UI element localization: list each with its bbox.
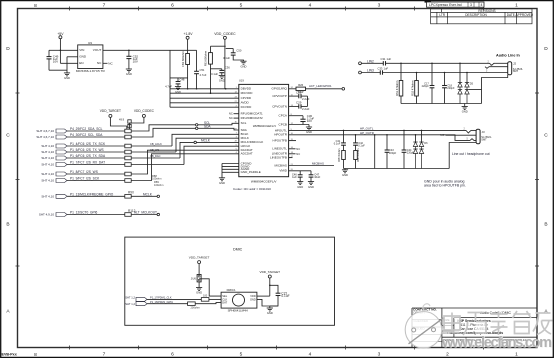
zone tick marks top (70, 7, 484, 11)
svg-text:VIN: VIN (79, 48, 84, 52)
svg-text:VDD_TARGET: VDD_TARGET (260, 270, 281, 274)
svg-text:B: B (544, 222, 547, 228)
svg-text:EN: EN (79, 61, 83, 65)
svg-text:P1_13/MCLK/FREQME_GPIO: P1_13/MCLK/FREQME_GPIO (70, 192, 114, 196)
ESD diode D5 (458, 63, 474, 104)
svg-text:10uF: 10uF (314, 175, 320, 179)
capacitor C28 (289, 90, 310, 100)
power flag VDD_CODEC (214, 32, 236, 89)
svg-text:49.9: 49.9 (119, 118, 125, 122)
capacitor C30 flying (289, 114, 315, 124)
svg-text:RFU/DMICDAT1: RFU/DMICDAT1 (241, 112, 263, 116)
capacitor C36 (211, 65, 231, 76)
ground (line out bus) (344, 169, 346, 170)
svg-text:HP_OUTR: HP_OUTR (360, 131, 374, 135)
svg-text:CPVOUTN: CPVOUTN (272, 104, 287, 108)
wire MICBIAS (289, 161, 334, 165)
svg-text:4: 4 (309, 3, 312, 9)
wire VOUT bus (103, 49, 197, 51)
svg-text:8: 8 (34, 352, 37, 358)
svg-text:7: 7 (103, 3, 106, 9)
svg-text:DMIC: DMIC (233, 247, 243, 251)
zone letters left (6, 46, 10, 315)
svg-text:1: 1 (515, 352, 518, 358)
capacitor C29 (289, 101, 310, 111)
svg-text:2.2uF: 2.2uF (302, 97, 310, 101)
svg-text:D6: D6 (424, 141, 428, 145)
svg-text:P1_5/FC6_I2S_TX_WS: P1_5/FC6_I2S_TX_WS (70, 148, 104, 152)
svg-text:4.7uF: 4.7uF (165, 84, 172, 88)
svg-text:P4_29/FC2_SDA_SCL: P4_29/FC2_SDA_SCL (70, 127, 103, 131)
capacitor C51 (194, 50, 207, 89)
svg-text:200ohm: 200ohm (191, 305, 200, 309)
svg-text:C: C (544, 133, 548, 139)
svg-text:2.2uF: 2.2uF (302, 107, 310, 111)
ground (mic) (267, 308, 273, 315)
wire gnd bus (line in) (401, 75, 508, 107)
svg-text:D: D (544, 46, 548, 52)
watermark www.elecfans.com (441, 335, 553, 352)
wire VMID (289, 171, 311, 175)
svg-text:C33: C33 (378, 66, 383, 70)
flag DMIC clock (125, 295, 201, 301)
svg-text:SHT 1,2: SHT 1,2 (125, 302, 135, 306)
svg-text:WM8904CGEFL/V: WM8904CGEFL/V (253, 124, 276, 128)
svg-text:www.elecfans.com: www.elecfans.com (441, 335, 552, 351)
ferrite bead FB3 (204, 46, 226, 93)
svg-text:SHT 4,10: SHT 4,10 (41, 172, 54, 176)
svg-text:HPOUTL: HPOUTL (275, 128, 288, 132)
svg-text:4.7uF: 4.7uF (200, 73, 207, 77)
row 8 (41, 154, 238, 187)
wire HPOUTL (289, 126, 466, 130)
power flag +5V (57, 32, 64, 39)
revision table (431, 9, 532, 24)
svg-text:1uF: 1uF (384, 66, 389, 70)
zone tick marks bottom (70, 346, 484, 350)
svg-text:area tied to HPOUTFB pin.: area tied to HPOUTFB pin. (424, 184, 466, 188)
wire supply rails to codec (170, 89, 239, 107)
ground (JU6) (196, 288, 202, 295)
IC left NC marks on RFU pins (229, 112, 239, 120)
wire HPOUTR (289, 131, 470, 140)
svg-text:Audio Line In: Audio Line In (496, 53, 521, 57)
svg-text:D5: D5 (470, 82, 474, 86)
power flag VDD_TARGET (pull-ups) (100, 109, 127, 126)
capacitor C31 (381, 57, 392, 65)
svg-text:R26: R26 (298, 83, 303, 87)
svg-text:P1_8/FC7_I2S_WS: P1_8/FC7_I2S_WS (70, 170, 98, 174)
jack J3 headphone (440, 128, 491, 143)
svg-text:4: 4 (309, 352, 312, 358)
svg-text:WM8904CGEFL/V: WM8904CGEFL/V (251, 179, 278, 183)
jumper JU6 (191, 275, 201, 282)
svg-text:100ohm: 100ohm (154, 183, 163, 187)
jack J2 audio line in (485, 53, 523, 75)
svg-text:DAT: DAT (222, 301, 227, 305)
svg-text:2: 2 (446, 352, 449, 358)
svg-text:DBVDD: DBVDD (241, 87, 252, 91)
zone letters right (544, 46, 548, 315)
ground (C46) (297, 182, 303, 189)
regulator U9 (76, 41, 106, 73)
ground (C30) (308, 125, 310, 128)
svg-text:C50: C50 (236, 49, 241, 53)
svg-text:VDD_TARGET: VDD_TARGET (189, 256, 210, 260)
svg-text:C28: C28 (296, 90, 302, 94)
svg-text:VDD_TARGET: VDD_TARGET (100, 109, 121, 113)
svg-text:GPIO1/IRQ: GPIO1/IRQ (272, 87, 288, 91)
svg-text:SMT: SMT (513, 69, 519, 73)
svg-text:SHT 4,10: SHT 4,10 (41, 163, 54, 167)
svg-text:VOUT: VOUT (93, 48, 102, 52)
svg-text:FB2 600ohm: FB2 600ohm (181, 51, 185, 67)
capacitor C47 (309, 173, 321, 182)
svg-text:1uF: 1uF (387, 57, 392, 61)
svg-text:100ohm: 100ohm (152, 177, 161, 181)
svg-text:NC: NC (440, 133, 444, 137)
svg-text:ADCDAT: ADCDAT (241, 152, 253, 156)
op IC body (239, 79, 289, 184)
svg-text:0.1uF: 0.1uF (334, 142, 341, 146)
wire cap to gnd bus (49, 57, 67, 73)
svg-text:MCLK: MCLK (201, 139, 211, 143)
svg-text:CPVOUTP: CPVOUTP (272, 94, 287, 98)
capacitor C18 (442, 72, 455, 104)
svg-text:3: 3 (378, 352, 381, 358)
svg-text:CPCA: CPCA (279, 114, 287, 118)
wire to terminal (306, 88, 343, 90)
wire jumper to SEL (199, 279, 221, 296)
resistor R121 (188, 302, 222, 309)
svg-text:0.1uF: 0.1uF (281, 294, 289, 298)
row 10: ALT MCLKOUT (39, 209, 160, 217)
ESD diode D6 (413, 130, 428, 169)
svg-text:SHT 4,10: SHT 4,10 (41, 194, 54, 198)
svg-text:R51 47kohm: R51 47kohm (395, 80, 399, 96)
svg-text:P1_7/FC7_I2S_RX_DAT: P1_7/FC7_I2S_RX_DAT (70, 161, 105, 165)
ground (line in bus) (462, 107, 468, 114)
svg-text:GND: GND (250, 297, 256, 301)
wire LIN3 (361, 72, 380, 74)
svg-text:SHT 1,2: SHT 1,2 (125, 296, 135, 300)
svg-text:SPH0641LM4H: SPH0641LM4H (228, 309, 248, 313)
microphone DMIC1 (221, 288, 257, 312)
wire LIN2 (361, 62, 383, 64)
svg-text:8: 8 (34, 3, 37, 9)
wire gnd pour boundary (374, 134, 376, 169)
svg-text:NC: NC (97, 61, 102, 65)
svg-text:SCL: SCL (241, 121, 247, 125)
row 5: I2S TX SDA (41, 139, 238, 160)
svg-text:P4_30/FC2_SCL_SDA: P4_30/FC2_SCL_SDA (70, 133, 103, 137)
watermark chinese characters (444, 311, 553, 335)
wire to jack tip (386, 62, 490, 64)
wire GND pin (67, 56, 78, 58)
svg-text:SHT 4,6,7,10: SHT 4,6,7,10 (36, 129, 54, 133)
svg-text:HPOUTR: HPOUTR (274, 133, 288, 137)
svg-text:P1_16/PDM1_DATA: P1_16/PDM1_DATA (150, 300, 173, 304)
svg-text:Codec: I2C addr = 0011010: Codec: I2C addr = 0011010 (233, 187, 271, 191)
row 2: I2C SCL (36, 125, 238, 139)
svg-text:SHT 4,6,7,10: SHT 4,6,7,10 (36, 135, 54, 139)
svg-text:SHT 4,9,10: SHT 4,9,10 (39, 213, 54, 217)
row 7 (41, 150, 238, 180)
svg-text:P1_4/FC6_I2S_TX_SCK: P1_4/FC6_I2S_TX_SCK (70, 142, 106, 146)
capacitor C48 (165, 78, 187, 89)
svg-text:JU6: JU6 (191, 276, 197, 280)
capacitor C50 (223, 49, 243, 62)
svg-text:SHT 4,10: SHT 4,10 (41, 179, 54, 183)
node LIN terminals (359, 59, 374, 74)
capacitor C41 + resistor R45 branch (334, 130, 346, 169)
svg-text:C: C (6, 133, 10, 139)
svg-text:MIC5366-1.8YC5 TR: MIC5366-1.8YC5 TR (76, 69, 106, 73)
svg-text:B: B (6, 222, 9, 228)
svg-text:CPCB: CPCB (279, 122, 287, 126)
svg-text:P1_9/FC7_I2S_SCK: P1_9/FC7_I2S_SCK (70, 177, 100, 181)
svg-text:R45 390ohm: R45 390ohm (339, 148, 341, 161)
zone tick marks sides (16, 93, 540, 266)
svg-text:ALT_MCLKOUT: ALT_MCLKOUT (134, 211, 157, 215)
node junctions (60, 50, 227, 94)
svg-text:P1_12/SCT0_GPI6: P1_12/SCT0_GPI6 (70, 211, 98, 215)
svg-text:GND: GND (79, 55, 87, 59)
node ACT_LED/GPIO1 (309, 84, 345, 90)
svg-text:10V: 10V (53, 60, 58, 64)
svg-text:NC: NC (229, 116, 233, 120)
svg-text:220pF: 220pF (447, 86, 455, 90)
power flag VDD_TARGET (mic) (260, 270, 281, 296)
svg-text:7: 7 (103, 352, 106, 358)
svg-text:0.1uF: 0.1uF (358, 143, 365, 147)
wire gnd bus (line out) (344, 143, 477, 169)
ground (C50) (240, 61, 246, 68)
row 4: I2S TX WS (41, 138, 238, 154)
svg-text:RFU/DMICDAT2: RFU/DMICDAT2 (241, 116, 263, 120)
watermark logo circle (405, 304, 443, 348)
capacitor C33 (378, 66, 389, 74)
svg-text:NC: NC (296, 147, 300, 151)
svg-text:DATE: DATE (507, 13, 515, 17)
capacitor C42 + resistor R46 branch (353, 134, 365, 169)
svg-text:C31: C31 (381, 57, 386, 61)
svg-text:AVDD: AVDD (241, 101, 250, 105)
sheet reference box top right (425, 0, 485, 7)
svg-text:P1_6/FC6_I2S_TX_SDA: P1_6/FC6_I2S_TX_SDA (70, 154, 106, 158)
svg-text:HPOUTFB: HPOUTFB (273, 139, 287, 143)
svg-text:HP_OUTL: HP_OUTL (360, 126, 374, 130)
svg-text:4: 4 (481, 3, 483, 7)
svg-text:APPROVED: APPROVED (516, 13, 534, 17)
svg-text:MICVDD: MICVDD (241, 91, 254, 95)
svg-text:LINEOUTL: LINEOUTL (272, 147, 287, 151)
NC stub (103, 61, 114, 65)
wire HPOUTFB stub (289, 140, 296, 142)
row 3: I2S TX SCK (41, 134, 238, 148)
capacitor C17 (422, 63, 435, 104)
capacitor C46 (292, 173, 303, 182)
svg-text:FB3 600ohm: FB3 600ohm (204, 50, 208, 66)
ground (codec) (219, 178, 225, 185)
svg-text:CPVDD: CPVDD (241, 96, 252, 100)
svg-text:MICBIAS: MICBIAS (312, 161, 324, 165)
svg-text:220pF: 220pF (407, 151, 415, 155)
svg-text:ACT_LED/GPIO1: ACT_LED/GPIO1 (309, 84, 332, 88)
svg-text:DCVDD: DCVDD (241, 105, 253, 109)
svg-text:10V: 10V (133, 59, 138, 63)
svg-text:6: 6 (171, 3, 174, 9)
svg-text:EVB-Pxx: EVB-Pxx (2, 353, 17, 357)
svg-text:220pF: 220pF (422, 84, 430, 88)
flag DMIC data (125, 300, 187, 306)
capacitor C21 (269, 285, 290, 307)
wire to jack ring (383, 72, 508, 74)
svg-text:C51: C51 (200, 68, 205, 72)
svg-text:C48: C48 (180, 78, 185, 82)
resistor R26 (296, 83, 306, 94)
wire VDD pin (257, 295, 270, 297)
capacitor C49 (47, 55, 59, 71)
svg-text:SHT 4,10: SHT 4,10 (41, 150, 54, 154)
capacitor C44 (402, 130, 415, 169)
row 6: I2S RX SDA (41, 146, 238, 166)
svg-text:LIN3: LIN3 (367, 69, 374, 73)
IC right pin labels (270, 87, 288, 173)
ground (regulator) (64, 73, 70, 80)
svg-text:5: 5 (240, 3, 243, 9)
svg-text:SHT 4,10: SHT 4,10 (41, 156, 54, 160)
row 1: I2C SDA (36, 121, 238, 133)
wire GPIO1 (289, 88, 296, 90)
resistor R120 (201, 294, 221, 302)
svg-text:3: 3 (470, 3, 472, 7)
svg-text:DESCRIPTION: DESCRIPTION (465, 13, 487, 17)
ground (C47) (308, 182, 314, 189)
wire +1.8V feed vertical (169, 50, 171, 107)
svg-text:LIN2: LIN2 (367, 59, 374, 63)
wire EN pin (60, 62, 77, 64)
IC left pin labels (241, 87, 264, 175)
svg-text:3: 3 (378, 3, 381, 9)
svg-text:CB_ACLK: CB_ACLK (150, 142, 162, 146)
svg-text:MCLK: MCLK (143, 192, 153, 196)
wire to gnd (269, 306, 271, 308)
wire CP bus (307, 96, 309, 106)
ground (C52) (126, 69, 132, 76)
svg-text:P1_17/PDM1_CLK: P1_17/PDM1_CLK (150, 295, 172, 299)
svg-text:SHT 4,10: SHT 4,10 (41, 144, 54, 148)
svg-text:U19: U19 (239, 79, 244, 83)
svg-text:C36: C36 (225, 65, 230, 69)
title block (412, 308, 537, 348)
svg-text:J2: J2 (513, 62, 516, 66)
svg-text:SDA: SDA (204, 125, 211, 129)
svg-text:NC: NC (296, 152, 300, 156)
svg-text:R46 390ohm: R46 390ohm (358, 148, 360, 161)
svg-text:VMID: VMID (279, 169, 287, 173)
wire GND pin (257, 299, 278, 306)
svg-text:0.1uF: 0.1uF (223, 56, 230, 60)
wire +5V to VIN (49, 39, 78, 64)
capacitor C43 (385, 134, 397, 169)
DMIC box (125, 237, 335, 325)
svg-text:220pF: 220pF (389, 151, 397, 155)
svg-text:0.1uF: 0.1uF (211, 72, 218, 76)
svg-text:D: D (6, 46, 10, 52)
svg-text:Line out / headphone out: Line out / headphone out (452, 152, 490, 156)
svg-text:100: 100 (203, 294, 208, 298)
resistor R52 (411, 72, 419, 104)
svg-text:6: 6 (171, 352, 174, 358)
svg-text:R90: R90 (128, 191, 134, 195)
svg-text:LPCXpresso Ever.Ind: LPCXpresso Ever.Ind (429, 3, 462, 7)
wire jumper to gnd (198, 282, 200, 288)
svg-text:R52 47kohm: R52 47kohm (411, 80, 415, 96)
note gnd pour (424, 179, 466, 187)
ground (C48) (175, 87, 181, 94)
svg-text:VDD_CODEC: VDD_CODEC (214, 32, 236, 36)
ferrite bead FB2 (181, 51, 190, 89)
row 9: MCLK (41, 191, 159, 199)
svg-text:J3: J3 (482, 130, 485, 134)
svg-text:LINEOUTFB: LINEOUTFB (270, 156, 287, 160)
svg-text:U9: U9 (88, 41, 92, 45)
svg-text:GND_PADDLE: GND_PADDLE (241, 170, 261, 174)
svg-text:+5V: +5V (57, 32, 64, 36)
power flag VDD_CODEC (pull-ups) (119, 109, 155, 129)
svg-text:10V: 10V (307, 119, 312, 123)
svg-text:C29: C29 (296, 101, 302, 105)
wire codec ground pins (222, 164, 239, 178)
power flag +1.8V (184, 32, 194, 53)
svg-text:MICBIAS: MICBIAS (275, 163, 287, 167)
svg-text:LTR: LTR (439, 13, 445, 17)
svg-text:1uF: 1uF (292, 175, 297, 179)
svg-text:VDD_CODEC: VDD_CODEC (134, 109, 155, 113)
resistor R51 (395, 63, 403, 104)
svg-text:DMIC1: DMIC1 (227, 288, 236, 292)
svg-text:SMT: SMT (481, 138, 487, 142)
power flag VDD_TARGET (jumper) (189, 256, 210, 275)
svg-text:NC: NC (229, 112, 233, 116)
svg-text:+1.8V: +1.8V (184, 32, 194, 36)
IC pin numbers (235, 87, 294, 171)
svg-text:5: 5 (240, 352, 243, 358)
ground (C36) (219, 75, 225, 82)
zone numbers bottom (34, 352, 518, 358)
capacitor C52 (126, 50, 138, 69)
svg-text:1: 1 (515, 3, 518, 9)
zone numbers top (34, 3, 518, 9)
